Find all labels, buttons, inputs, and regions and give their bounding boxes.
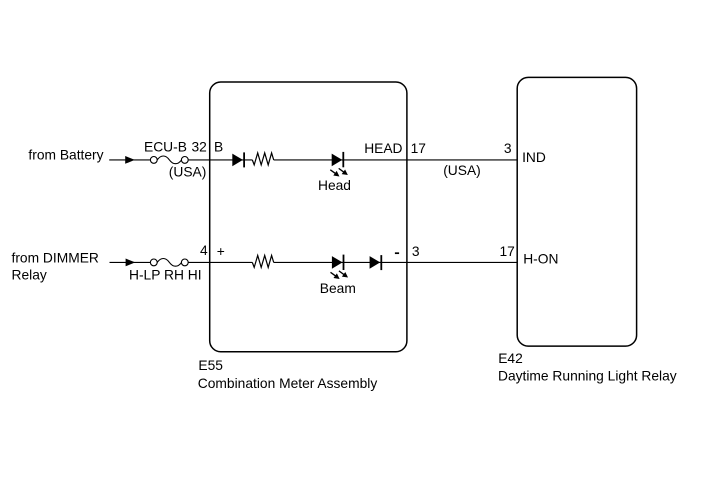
svg-text:Combination Meter Assembly: Combination Meter Assembly [198, 376, 378, 391]
svg-text:IND: IND [522, 150, 546, 165]
pin number 17 (E42) [500, 244, 515, 259]
wire inside E55, head circuit [210, 159, 407, 161]
fuse label ECU-B [144, 140, 187, 155]
resistor (beam circuit) [252, 255, 273, 267]
connector box E42 [517, 77, 636, 346]
svg-text:H-LP RH HI: H-LP RH HI [129, 268, 202, 283]
wire E55 HEAD to E42 IND [407, 159, 517, 161]
wire from Battery to E55 pin 32 [109, 159, 210, 161]
wire inside E55, beam circuit [210, 261, 407, 263]
fuse ECU-B [150, 156, 188, 164]
flow arrow on battery wire [125, 156, 135, 164]
wire from DIMMER relay to E55 pin 4 [110, 261, 210, 263]
pin name + [217, 244, 225, 259]
svg-text:B: B [214, 140, 223, 155]
pin number 4 (E55) [200, 243, 208, 258]
pin number 3 (E55) [412, 244, 420, 259]
node from DIMMER Relay [12, 251, 99, 283]
pin name H-ON [523, 251, 558, 266]
label Head [318, 178, 351, 193]
svg-text:from Battery: from Battery [28, 148, 103, 163]
svg-text:(USA): (USA) [443, 163, 481, 178]
note (USA) on interconnect wire [443, 163, 481, 178]
resistor (head circuit) [252, 153, 273, 165]
svg-text:(USA): (USA) [169, 165, 207, 180]
svg-text:17: 17 [411, 141, 426, 156]
pin number 32 (E55) [192, 140, 207, 155]
svg-text:Relay: Relay [12, 267, 47, 282]
pin name B [214, 140, 223, 155]
wire E55 pin3 to E42 H-ON [407, 261, 517, 263]
LED Beam indicator [329, 255, 350, 282]
svg-text:from DIMMER: from DIMMER [12, 251, 99, 266]
pin name - [395, 252, 399, 254]
label Beam [320, 281, 356, 296]
diode D2 (beam circuit) [370, 255, 382, 270]
svg-text:Head: Head [318, 178, 351, 193]
pin name IND [522, 150, 546, 165]
svg-text:32: 32 [192, 140, 207, 155]
LED Head indicator [329, 152, 350, 179]
svg-text:17: 17 [500, 244, 515, 259]
pin number 17 (E55) [411, 141, 426, 156]
svg-text:+: + [217, 244, 225, 259]
svg-text:4: 4 [200, 243, 208, 258]
svg-text:3: 3 [504, 141, 512, 156]
diode D1 (head circuit) [232, 152, 244, 167]
label E55 Combination Meter Assembly [198, 358, 378, 391]
svg-text:ECU-B: ECU-B [144, 140, 187, 155]
pin name HEAD [364, 141, 402, 156]
svg-text:E55: E55 [198, 358, 223, 373]
svg-text:H-ON: H-ON [523, 251, 558, 266]
label E42 Daytime Running Light Relay [498, 351, 677, 384]
svg-text:HEAD: HEAD [364, 141, 402, 156]
svg-text:3: 3 [412, 244, 420, 259]
flow arrow on dimmer wire [126, 259, 136, 267]
svg-text:Daytime Running Light Relay: Daytime Running Light Relay [498, 369, 677, 384]
pin number 3 (E42) [504, 141, 512, 156]
svg-text:Beam: Beam [320, 281, 356, 296]
note (USA) under fuse [169, 165, 207, 180]
fuse H-LP RH HI [150, 259, 188, 267]
connector box E55 [210, 82, 407, 352]
node from Battery [28, 148, 103, 163]
svg-text:E42: E42 [498, 351, 523, 366]
fuse label H-LP RH HI [129, 268, 202, 283]
